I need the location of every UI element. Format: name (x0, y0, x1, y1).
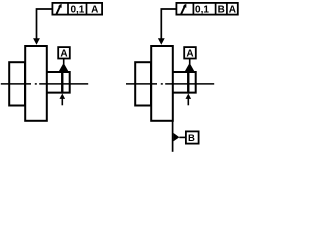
svg-text:0,1: 0,1 (70, 5, 84, 16)
svg-text:A: A (229, 5, 236, 16)
svg-text:A: A (60, 49, 67, 60)
svg-text:B: B (218, 5, 225, 16)
svg-text:B: B (188, 133, 195, 144)
svg-text:A: A (91, 5, 98, 16)
svg-text:A: A (186, 49, 193, 60)
svg-text:0,1: 0,1 (195, 5, 209, 16)
